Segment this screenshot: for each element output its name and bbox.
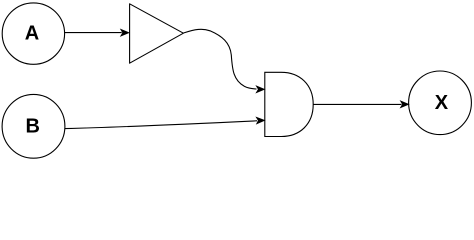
wire A to buffer [64, 30, 128, 36]
svg-text:A: A [25, 22, 39, 44]
buffer U1 [130, 4, 184, 63]
output node X [409, 71, 472, 135]
wire AND output to X [313, 101, 408, 107]
AND gate U2 [265, 72, 313, 136]
input node B [2, 94, 65, 158]
input node A [2, 3, 64, 64]
svg-text:X: X [435, 92, 449, 114]
wire B to AND bottom input [65, 118, 264, 129]
svg-text:B: B [25, 116, 39, 138]
wire buffer to AND top input [184, 29, 265, 92]
